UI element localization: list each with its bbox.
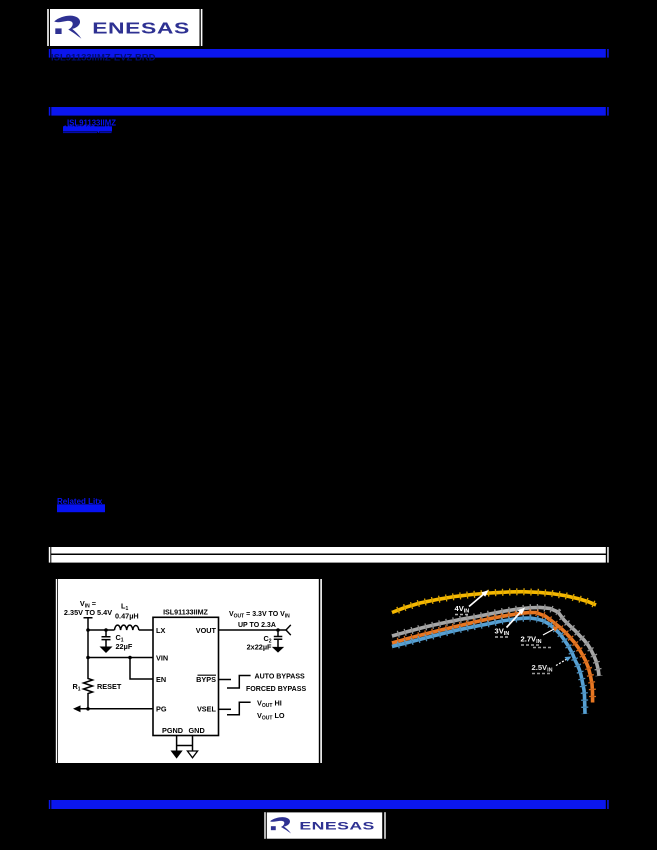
curve 2.7VIN orange: [392, 613, 593, 703]
wire: VIN line: [88, 630, 153, 677]
logo right white edge line: [201, 9, 203, 46]
curve 2.5VIN blue: [392, 618, 585, 714]
inductor L1: [115, 625, 139, 630]
resistor R1: [84, 677, 93, 695]
wire: PG line with left arrow: [79, 708, 153, 710]
ghost dashes under 3VIN: [495, 636, 508, 638]
node dot EN tap: [128, 656, 132, 660]
C2 labels: [247, 634, 272, 652]
node dot VOUT/C2: [276, 628, 280, 632]
BYPS overline: [198, 674, 217, 676]
wire: VSEL pin stub: [219, 708, 232, 710]
ground PGND (filled): [172, 751, 182, 758]
wire: GND stub: [192, 736, 194, 752]
figure white side line right: [320, 579, 322, 763]
wire: PGND stub: [176, 736, 178, 752]
ground GND (open): [187, 751, 197, 758]
leader to orange: [543, 629, 555, 636]
capacitor C1: [102, 630, 111, 647]
VOUT labels: [229, 611, 290, 629]
C1 label: [116, 633, 133, 651]
curve 4VIN yellow: [392, 592, 596, 613]
pin labels right: [196, 626, 217, 714]
figure white background: [58, 579, 319, 763]
svg-text:4VIN: 4VIN: [455, 604, 470, 615]
ground (C1): [101, 647, 112, 652]
curve 3VIN gray: [392, 607, 599, 676]
header blue bar 1: [49, 49, 51, 58]
arrowhead PG (points left): [73, 705, 81, 712]
node dot at VIN/LX corner: [86, 628, 90, 632]
ghost dashes under 2.7VIN: [521, 644, 539, 646]
L1 label: [115, 602, 139, 621]
wire: top LX line: [88, 629, 153, 631]
white band strip 1: [49, 547, 51, 563]
white band strip 2: [51, 555, 606, 563]
op IC ISL91133IIMZ body: [153, 617, 219, 735]
BYPS switch labels: [246, 674, 306, 694]
node dot at C1 tap: [104, 628, 108, 632]
footer logo right white edge line: [384, 812, 385, 839]
ghost dashes under 4VIN: [455, 614, 468, 616]
switch VSEL: [227, 702, 251, 714]
pin labels bottom: [162, 726, 205, 735]
svg-text:2.7VIN: 2.7VIN: [521, 635, 542, 646]
switch BYPS: [227, 676, 251, 689]
renesas logo bottom: [267, 812, 382, 838]
VOUT open chevron terminal: [286, 625, 291, 635]
wire: BYPS pin stub: [219, 679, 232, 681]
header blue bar 2: [49, 107, 51, 116]
svg-text:3VIN: 3VIN: [495, 627, 510, 638]
capacitor C2: [274, 630, 283, 647]
ghost dashes around 2.5VIN: [533, 647, 551, 649]
VIN supply T-bar: [84, 618, 93, 630]
leader to gray: [507, 611, 523, 628]
wire: gnd tie bar: [177, 745, 193, 747]
svg-text:2.5VIN: 2.5VIN: [532, 663, 553, 674]
node dot PG rail: [86, 707, 90, 711]
footer blue bar: [49, 800, 51, 809]
VIN supply label: [64, 599, 112, 617]
dotted leader to blue: [556, 659, 567, 666]
wire: EN L-shape: [130, 658, 153, 680]
wire: R1 to PG rail: [87, 695, 89, 709]
ground (C2): [273, 647, 283, 652]
renesas logo top: [50, 9, 200, 46]
node dot VIN rail: [86, 656, 90, 660]
R1 labels: [73, 682, 122, 693]
figure white side line left: [56, 579, 57, 763]
footer logo left white edge line: [264, 812, 265, 839]
wire: VOUT line: [219, 629, 287, 631]
VSEL switch labels: [257, 698, 285, 721]
leader to yellow: [469, 593, 486, 607]
pin labels left: [156, 626, 168, 714]
logo left white edge line: [47, 9, 49, 46]
